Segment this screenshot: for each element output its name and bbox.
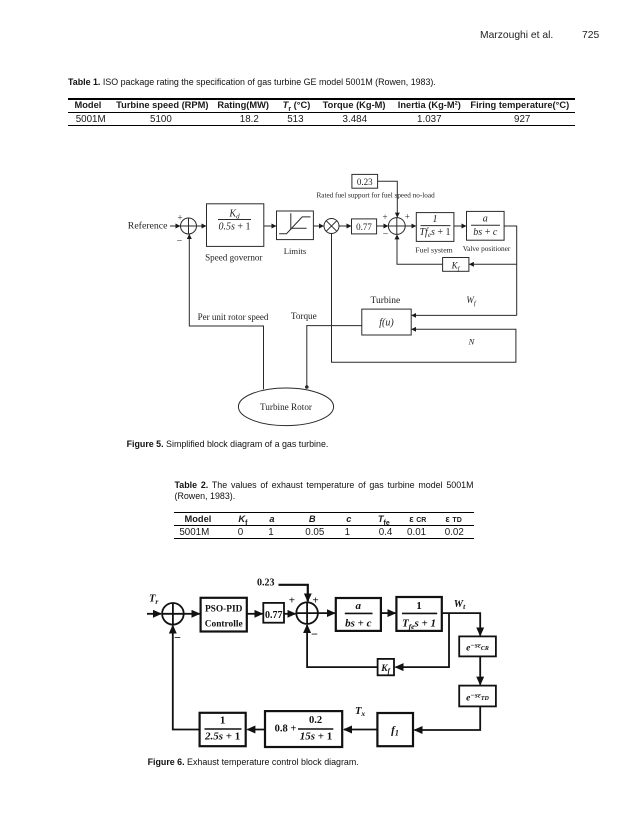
svg-text:0.77: 0.77: [265, 610, 283, 621]
svg-text:f(u): f(u): [379, 318, 394, 329]
svg-text:Kf: Kf: [380, 664, 390, 675]
svg-text:bs + c: bs + c: [345, 618, 372, 630]
svg-text:1: 1: [220, 715, 226, 727]
svg-text:e−sεTD: e−sεTD: [466, 691, 489, 704]
svg-text:PSO-PID: PSO-PID: [205, 605, 243, 615]
svg-text:e−sεCR: e−sεCR: [466, 641, 489, 654]
svg-text:Controlle: Controlle: [205, 620, 243, 630]
svg-text:Turbine Rotor: Turbine Rotor: [260, 402, 312, 412]
svg-text:Kf: Kf: [451, 261, 461, 273]
svg-text:Per unit rotor speed: Per unit rotor speed: [198, 312, 269, 322]
svg-text:+: +: [312, 595, 318, 607]
svg-text:15s + 1: 15s + 1: [300, 730, 333, 742]
svg-text:+: +: [289, 595, 295, 607]
svg-text:Fuel system: Fuel system: [415, 245, 452, 254]
svg-text:Torque: Torque: [291, 311, 317, 321]
svg-text:bs + c: bs + c: [473, 227, 498, 238]
svg-text:Kd: Kd: [228, 208, 240, 220]
svg-text:Valve positioner: Valve positioner: [463, 244, 511, 253]
svg-text:Turbine: Turbine: [371, 296, 401, 306]
svg-text:N: N: [468, 337, 476, 347]
svg-text:+: +: [382, 212, 387, 222]
svg-text:2.5s + 1: 2.5s + 1: [204, 731, 240, 743]
svg-text:Speed governor: Speed governor: [205, 253, 262, 263]
svg-text:Wt: Wt: [454, 599, 466, 611]
svg-text:Tfes + 1: Tfes + 1: [420, 227, 451, 239]
svg-text:Tx: Tx: [355, 706, 365, 718]
svg-text:1: 1: [416, 600, 422, 612]
svg-text:Rated fuel support for fuel sp: Rated fuel support for fuel speed no-loa…: [317, 191, 436, 199]
svg-text:Reference: Reference: [128, 221, 168, 232]
svg-text:Limits: Limits: [284, 246, 307, 256]
svg-text:1: 1: [433, 214, 438, 225]
svg-text:a: a: [356, 600, 362, 612]
svg-text:0.23: 0.23: [357, 177, 373, 187]
svg-text:+: +: [405, 212, 410, 222]
svg-text:−: −: [311, 627, 318, 641]
svg-text:Tfes + 1: Tfes + 1: [402, 618, 436, 632]
svg-text:−: −: [177, 236, 183, 247]
svg-text:0.2: 0.2: [309, 715, 322, 726]
svg-text:a: a: [483, 214, 488, 225]
svg-text:−: −: [383, 229, 389, 240]
svg-text:0.77: 0.77: [356, 222, 372, 232]
svg-text:0.8 +: 0.8 +: [275, 723, 297, 734]
svg-text:Wf: Wf: [466, 295, 477, 307]
svg-text:f1: f1: [391, 725, 399, 738]
svg-text:0.23: 0.23: [257, 578, 275, 589]
svg-text:+: +: [177, 212, 182, 222]
svg-text:−: −: [174, 631, 181, 645]
svg-text:0.5s + 1: 0.5s + 1: [218, 222, 250, 233]
svg-text:Tr: Tr: [149, 594, 158, 607]
